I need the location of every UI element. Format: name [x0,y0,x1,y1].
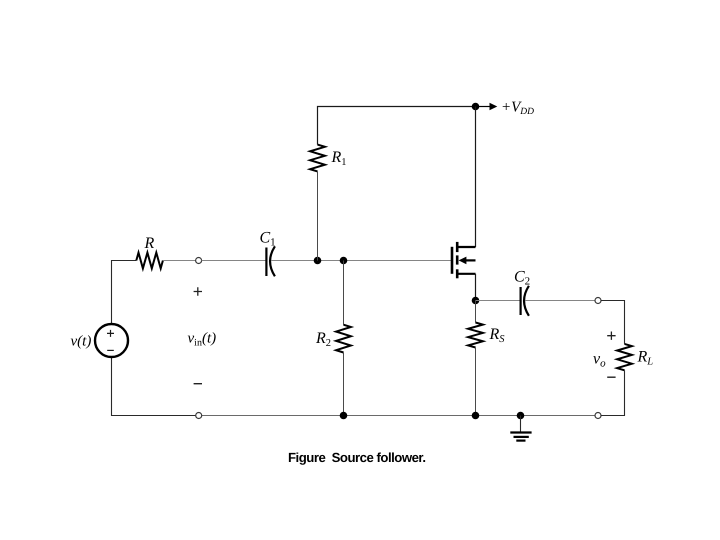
wire: RS bottom stem [475,348,477,416]
open node: vo bottom terminal [595,413,601,419]
resistor RS [468,323,483,348]
wire: C2 to open node [525,300,595,302]
resistor R2 [336,325,351,353]
node dot: ground junction [517,412,525,420]
voltage source minus sign [107,349,114,351]
svg-text:C1: C1 [260,230,276,249]
wire: top rail y=106 [318,107,476,145]
svg-text:R1: R1 [331,149,347,168]
capacitor C2 left plate [519,287,521,315]
wire: open node to RL bottom corner [601,370,625,415]
wire: R2 top stem [343,261,345,325]
ground bar 3 [516,440,525,442]
wire: open node to C1 [202,260,267,262]
svg-text:vin(t): vin(t) [188,331,217,349]
MOSFET Q1 channel dash middle [456,255,459,264]
MOSFET Q1 channel dash top [456,242,459,252]
node dot: R2 top junction [340,257,348,265]
MOSFET Q1 drain lead [457,246,475,248]
svg-text:Figure Source follower.: Figure Source follower. [288,450,426,465]
wire: left vertical lower (source bottom to bottom rail corner) [112,357,196,416]
MOSFET Q1 gate bar [451,247,454,274]
svg-text:vo: vo [593,351,606,370]
node dot: RS bottom junction [472,412,480,420]
node dot: VDD junction [472,103,480,111]
svg-text:R: R [144,235,155,252]
node dot: R1 bottom junction [314,257,322,265]
voltage source v(t) circle [95,324,128,357]
wire: left vertical upper (source top to gate row corner) [112,261,137,325]
wire: R2 bottom stem [343,353,345,416]
svg-text:v(t): v(t) [71,333,92,349]
ground stem [520,416,522,433]
label plus (vo) [607,332,615,340]
label minus (vin) [194,383,202,385]
open node: vo top terminal [595,298,601,304]
ground bar 2 [514,436,529,438]
resistor RL [617,344,632,370]
capacitor C2 right curved plate [524,286,529,316]
wire: drain vertical [475,107,477,248]
wire: R to open node [163,260,196,262]
wire: source vertical to node [475,274,477,301]
open node: vin top terminal [196,258,202,264]
VDD arrow [476,106,492,108]
svg-text:RS: RS [489,326,506,345]
svg-text:C2: C2 [514,269,530,288]
label minus (vo) [607,376,615,378]
MOSFET Q1 source lead [457,273,475,275]
open node: vin bottom terminal [196,413,202,419]
node dot: R2 bottom junction [340,412,348,420]
wire: C1 to MOSFET gate (through nodes) [271,260,451,262]
MOSFET Q1 channel dash bottom [456,269,459,278]
svg-text:+VDD: +VDD [501,99,534,117]
resistor R [136,253,163,269]
capacitor C1 left plate [265,248,267,277]
resistor R1 [310,145,325,172]
capacitor C1 right curved plate [270,246,275,276]
wire: RS top stem [475,301,477,323]
ground bar 1 [510,431,531,433]
wire: open node to RL top corner [601,301,625,344]
voltage source plus sign [107,330,114,337]
svg-text:R2: R2 [315,330,331,349]
label plus (vin) [194,287,202,295]
wire: R1 bottom stem [317,171,319,260]
wire: bottom rail [202,415,595,417]
MOSFET Q1 body lead with arrow [462,259,476,261]
node dot: source junction [472,297,480,305]
svg-text:RL: RL [637,349,654,368]
wire: source node to C2 [476,300,521,302]
